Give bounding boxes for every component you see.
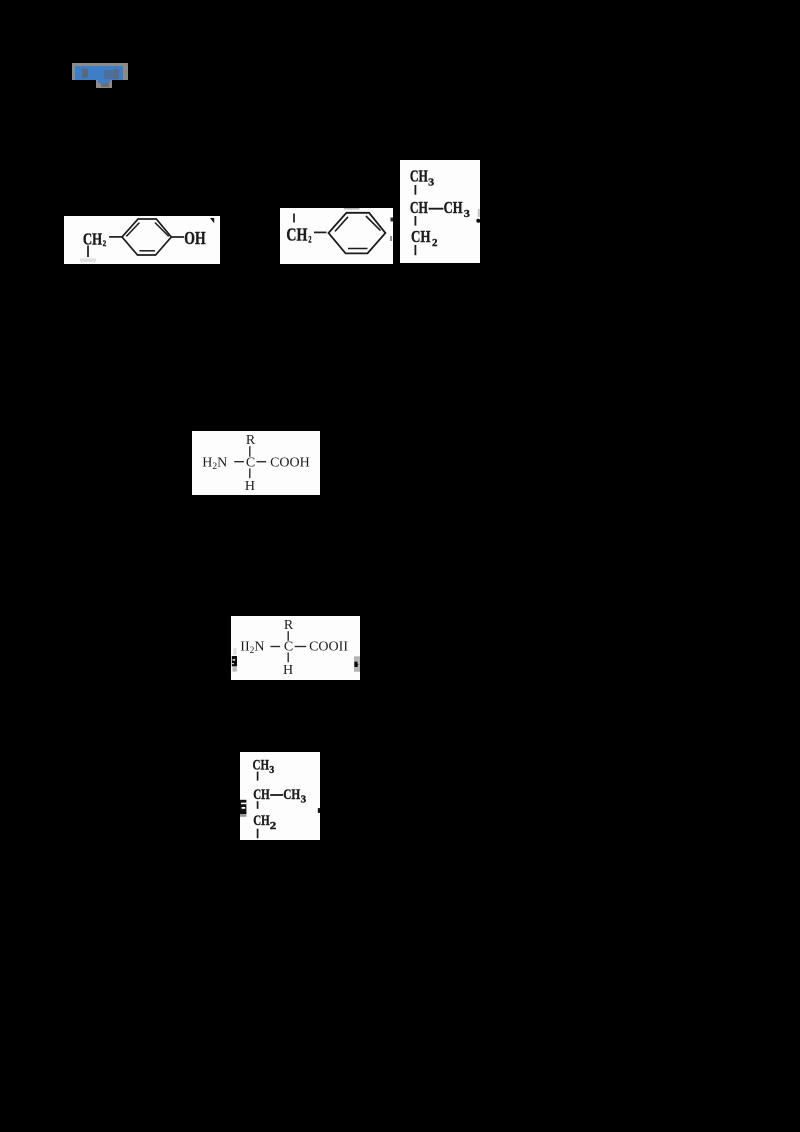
gray bar right edge bbox=[354, 656, 360, 672]
svg-text:OH: OH bbox=[184, 228, 205, 248]
svg-text:H: H bbox=[245, 479, 255, 494]
speck right edge lower bbox=[390, 236, 392, 241]
bond H2N-C bbox=[234, 461, 244, 463]
bond bbox=[414, 245, 416, 255]
svg-text:R: R bbox=[284, 618, 294, 633]
svg-text:CH: CH bbox=[410, 198, 428, 217]
svg-text:2: 2 bbox=[432, 237, 438, 249]
bond above CH2 bbox=[293, 214, 295, 223]
bond CH2-ring bbox=[109, 236, 121, 238]
box6: isobutyl chain CH3/CH-CH3/CH2 (second) bbox=[240, 752, 320, 840]
svg-text:CH: CH bbox=[286, 225, 307, 245]
bond below CH2 bbox=[87, 246, 89, 258]
svg-text:R: R bbox=[246, 433, 256, 448]
svg-text:3: 3 bbox=[428, 177, 435, 189]
svg-text:C: C bbox=[246, 456, 255, 471]
bond bbox=[257, 829, 259, 839]
benzene ring outline bbox=[122, 219, 171, 255]
svg-text:H2N: H2N bbox=[202, 456, 227, 473]
svg-text:3: 3 bbox=[269, 765, 274, 776]
svg-text:CH: CH bbox=[410, 167, 428, 186]
svg-text:3: 3 bbox=[464, 208, 471, 220]
gray mark left edge bottom bbox=[232, 667, 236, 671]
svg-text:COOII: COOII bbox=[309, 640, 348, 655]
bond bbox=[257, 801, 259, 809]
svg-text:CH: CH bbox=[444, 198, 463, 217]
box2: benzyl fragment CH2-C6H5 bbox=[280, 208, 393, 264]
svg-text:2: 2 bbox=[103, 238, 107, 248]
bond C-H bbox=[287, 653, 289, 663]
label answer tag (gray box with blue highlighted text) bbox=[72, 63, 128, 80]
gray tick above ring bbox=[344, 208, 360, 210]
speck right edge upper bbox=[391, 218, 394, 222]
bond CH2-ring bbox=[314, 231, 327, 233]
bond bbox=[414, 185, 416, 195]
bond bbox=[257, 772, 259, 781]
double bond upper-right bbox=[366, 216, 381, 231]
svg-text:CH: CH bbox=[411, 227, 431, 246]
svg-text:3: 3 bbox=[301, 795, 307, 806]
svg-text:CH: CH bbox=[253, 758, 270, 774]
speck top-right bbox=[210, 218, 214, 223]
gray smudge bottom-left bbox=[80, 258, 96, 262]
svg-text:2: 2 bbox=[308, 234, 311, 244]
bond II2N-C bbox=[270, 646, 280, 648]
gray tick right edge bbox=[478, 209, 480, 217]
box1: p-cresol fragment CH2-C6H4-OH bbox=[64, 216, 220, 264]
black dot right edge bbox=[476, 219, 480, 223]
svg-text:H: H bbox=[283, 663, 293, 678]
svg-text:CH: CH bbox=[253, 813, 270, 829]
double bond upper-left bbox=[335, 217, 348, 232]
svg-text:C: C bbox=[284, 640, 293, 655]
box3: isobutyl chain CH3/CH-CH3/CH2 bbox=[400, 160, 480, 263]
black glyph in right bar bbox=[354, 662, 358, 667]
box5: amino acid general formula II2N-C(R)(H)-COOII (scan) bbox=[231, 616, 360, 680]
double bond upper-left bbox=[126, 223, 139, 237]
bond bbox=[414, 216, 416, 226]
svg-text:2: 2 bbox=[270, 821, 277, 832]
svg-text:CH: CH bbox=[283, 787, 300, 803]
speck right edge bbox=[318, 808, 320, 813]
black glyph left edge bbox=[232, 656, 237, 666]
svg-text:CH: CH bbox=[83, 229, 102, 248]
bond C-COOH bbox=[257, 461, 267, 463]
box4: amino acid general formula H2N-C(R)(H)-COOH bbox=[192, 431, 320, 495]
bond C-H bbox=[249, 468, 251, 478]
svg-text:CH: CH bbox=[253, 787, 270, 803]
bond R-C bbox=[287, 631, 289, 641]
svg-text:II2N: II2N bbox=[240, 640, 264, 657]
double bond bottom bbox=[139, 250, 155, 252]
double bond upper-right bbox=[155, 223, 169, 237]
svg-text:COOH: COOH bbox=[270, 456, 310, 471]
benzene ring outline bbox=[329, 213, 386, 254]
gray mark left edge top bbox=[233, 648, 236, 655]
bond ring-OH bbox=[171, 236, 184, 238]
bond C-COOII bbox=[295, 646, 307, 648]
dark glyph left edge bbox=[240, 800, 246, 814]
bond R-C bbox=[249, 446, 251, 457]
double bond bottom bbox=[348, 248, 368, 250]
